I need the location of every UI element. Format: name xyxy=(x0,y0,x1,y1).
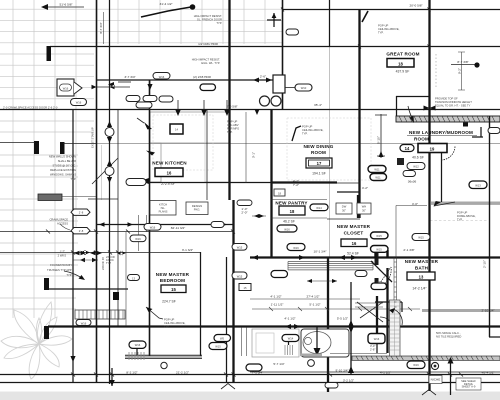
svg-text:224.7 SF: 224.7 SF xyxy=(162,300,176,304)
svg-text:30": 30" xyxy=(342,209,346,213)
vertical dim x461 great room xyxy=(458,52,465,90)
arrow at gray band bath top xyxy=(434,201,442,207)
svg-text:2'-10": 2'-10" xyxy=(483,260,487,268)
dim line top-left with arrow xyxy=(46,6,84,8)
svg-text:9'-2": 9'-2" xyxy=(458,68,462,74)
svg-text:27'-4 1/2": 27'-4 1/2" xyxy=(306,295,319,299)
svg-text:SHEET A-9: SHEET A-9 xyxy=(462,385,476,389)
wall horizontal y96 great room nib xyxy=(396,96,429,98)
tag W15 bath xyxy=(412,234,430,241)
tag small dining top xyxy=(286,29,299,35)
svg-text:18: 18 xyxy=(398,62,403,67)
svg-text:W16: W16 xyxy=(135,237,141,241)
wall horizontal y337 right xyxy=(489,336,500,338)
wall horizontal y326 (south wall) xyxy=(48,325,500,327)
svg-text:4'-1 1/2": 4'-1 1/2" xyxy=(380,371,391,375)
stair hatch bottom-left hallway xyxy=(75,310,125,319)
vertical dim x103 with rotated text xyxy=(103,12,105,44)
svg-text:W14: W14 xyxy=(316,206,322,210)
tag W16 bottom hall xyxy=(76,320,91,326)
svg-text:21'-2 1/2": 21'-2 1/2" xyxy=(176,371,189,375)
svg-text:CLG ABV: CLG ABV xyxy=(227,123,239,127)
wall horizontal y289 xyxy=(48,288,128,290)
svg-text:(2) 2X8 HDR: (2) 2X8 HDR xyxy=(193,75,211,79)
gray band right middle (shower curb) xyxy=(422,309,500,312)
dining corner pilaster xyxy=(273,75,285,93)
svg-text:W15: W15 xyxy=(237,275,243,279)
svg-text:TYP.: TYP. xyxy=(227,130,233,134)
svg-text:50% SPACE CALC.,: 50% SPACE CALC., xyxy=(436,331,461,335)
bath inner line xyxy=(395,206,397,258)
pop-up dashed rect kitchen xyxy=(153,115,213,170)
svg-text:ISL.: ISL. xyxy=(161,206,166,210)
wall horizontal y109 (full) xyxy=(0,109,500,111)
kitchen dim down-arrows xyxy=(178,100,227,114)
tag W16 pantry b xyxy=(287,244,305,251)
hallway gray line xyxy=(101,145,103,200)
svg-text:3'-7 3/4": 3'-7 3/4" xyxy=(124,75,135,79)
svg-text:CLOSET: CLOSET xyxy=(344,231,364,236)
svg-text:TYP.: TYP. xyxy=(164,325,170,329)
svg-text:20'-0 5/8": 20'-0 5/8" xyxy=(409,4,422,8)
svg-text:35'-4": 35'-4" xyxy=(314,103,322,107)
laundry leader arrow xyxy=(408,106,413,120)
bedroom nook verticals xyxy=(139,215,147,251)
bathtub xyxy=(301,329,349,357)
ticks top y9 xyxy=(281,8,431,12)
dim line great room xyxy=(451,64,476,66)
window tag W16 box with pointer (top-left) xyxy=(57,79,74,96)
svg-text:ROOM: ROOM xyxy=(311,150,326,155)
wall vertical x375 bath left segments xyxy=(375,252,379,265)
wall vertical x233 (lower) xyxy=(232,200,234,383)
svg-text:W14: W14 xyxy=(288,337,294,341)
shower right wall xyxy=(386,268,388,353)
svg-text:7'-1 3/4": 7'-1 3/4" xyxy=(252,371,263,375)
svg-text:TYP.: TYP. xyxy=(216,21,222,25)
svg-text:GL. FRENCH DOOR: GL. FRENCH DOOR xyxy=(197,18,222,22)
svg-text:2'-10 1/4": 2'-10 1/4" xyxy=(481,309,494,313)
svg-text:POP-UP: POP-UP xyxy=(457,211,468,215)
svg-text:3'-1": 3'-1" xyxy=(252,152,256,158)
kitchen leader arrows xyxy=(144,122,152,129)
dark label box hallway xyxy=(38,194,62,201)
crawl access leaders xyxy=(60,224,70,230)
tick arrows great room wall x429 xyxy=(424,106,436,111)
svg-text:PER MFG: PER MFG xyxy=(227,127,239,131)
leader hook xyxy=(64,271,83,279)
svg-text:W16: W16 xyxy=(413,363,419,367)
svg-text:2'-0 CRAWLSPACE ACCESS DOOR: 2'-0 CRAWLSPACE ACCESS DOOR 2'-6 2'-0 xyxy=(3,106,58,110)
tag W10 dining xyxy=(295,84,312,91)
arrow up right bottom xyxy=(450,362,452,395)
survey grid horizontal lines (top band) xyxy=(0,9,282,43)
svg-text:36x36: 36x36 xyxy=(408,180,417,184)
dim line y309 xyxy=(252,308,420,310)
pop-up dashed rect dining xyxy=(287,118,371,180)
svg-text:HIGH IMPACT RESIST.: HIGH IMPACT RESIST. xyxy=(192,58,221,62)
hall short line xyxy=(88,198,118,200)
wall vertical x109 xyxy=(109,0,111,384)
ticks y46 xyxy=(358,45,431,49)
svg-text:POP-UP: POP-UP xyxy=(302,125,313,129)
dim line y372 xyxy=(250,371,500,373)
tag W14 pantry top xyxy=(310,204,328,211)
bedroom pop-up leader xyxy=(146,307,163,319)
svg-text:EXIST STAIR UP: EXIST STAIR UP xyxy=(91,127,95,148)
tag W16 pantry south xyxy=(271,271,288,278)
hall thin vertical x246 xyxy=(245,112,247,183)
svg-text:10'-1 3/4": 10'-1 3/4" xyxy=(313,250,326,254)
svg-text:NICHE: NICHE xyxy=(431,378,441,382)
svg-text:W15: W15 xyxy=(215,345,221,349)
dim line y297 xyxy=(250,298,360,300)
svg-text:CEILING ABOVE,: CEILING ABOVE, xyxy=(302,128,324,132)
wall horizontal y9 (top right) xyxy=(282,9,500,11)
svg-text:19: 19 xyxy=(430,147,435,152)
floor drain circles xyxy=(308,360,315,367)
hall columns xyxy=(105,128,114,137)
dim arrows between walls x96-110 xyxy=(97,86,131,88)
svg-text:9'-10 3/4": 9'-10 3/4" xyxy=(335,369,348,373)
svg-text:WH: WH xyxy=(362,205,367,209)
tag cluster hall top xyxy=(126,96,140,102)
wall vertical x207 (kitchen/pantry) xyxy=(206,110,208,200)
svg-text:31'-4 1/2": 31'-4 1/2" xyxy=(159,2,172,6)
tag 4S hall xyxy=(237,200,252,206)
svg-text:2'-0 5/8": 2'-0 5/8" xyxy=(226,105,237,109)
tag 13 bedroom xyxy=(128,275,140,281)
wall vertical x328 (bath left lower) xyxy=(327,257,329,392)
wall vertical x429 (main right wall) xyxy=(428,0,430,391)
double circle symbol dining top xyxy=(260,96,270,106)
gray wall band above master bath xyxy=(431,202,500,205)
ticks y309 xyxy=(269,307,412,311)
closet top thin xyxy=(327,218,360,220)
svg-text:DOME ABOVE,: DOME ABOVE, xyxy=(457,214,476,218)
svg-text:2'-8: 2'-8 xyxy=(79,229,84,233)
bath door stubs xyxy=(376,250,388,258)
svg-text:KITCH: KITCH xyxy=(159,203,167,207)
ticks on y326 wall xyxy=(285,324,300,329)
bath vanity counter xyxy=(252,329,299,357)
vertical dim line x351 xyxy=(350,282,352,374)
svg-text:DESIGN: DESIGN xyxy=(192,204,202,208)
shower entry diagonals xyxy=(357,302,383,322)
svg-text:POP-UP: POP-UP xyxy=(164,318,175,322)
kitchen island black box xyxy=(170,124,183,134)
tag W14 vanity xyxy=(282,335,299,342)
small bar bedroom left xyxy=(113,292,119,300)
annotation boxes xyxy=(150,201,176,216)
svg-text:1/2 CMU HDR: 1/2 CMU HDR xyxy=(198,42,219,46)
laundry vert dim x381 xyxy=(375,114,387,158)
svg-text:5'-10": 5'-10" xyxy=(377,136,381,144)
chase verticals right of bedroom xyxy=(242,327,247,356)
svg-text:2'-8: 2'-8 xyxy=(79,211,84,215)
svg-text:CRAWLSPACE: CRAWLSPACE xyxy=(49,218,68,222)
pantry inner lines xyxy=(271,200,327,219)
wall vertical x149 (bedroom/kitchen left) xyxy=(149,80,151,356)
svg-text:W15: W15 xyxy=(376,280,382,284)
shower tile band xyxy=(390,300,401,356)
svg-text:FOUNDATION BY: FOUNDATION BY xyxy=(50,263,72,267)
thin vertical x118 xyxy=(117,109,119,326)
shower wall double line upper xyxy=(394,257,397,307)
bottom gray strip xyxy=(0,392,500,400)
svg-text:16: 16 xyxy=(167,171,172,176)
bedroom south wall edges xyxy=(125,355,202,358)
palm plant outline (landscaping) xyxy=(1,302,72,379)
section cross top dining xyxy=(267,13,281,27)
svg-text:TRANSOM WINDOW HEIGHT: TRANSOM WINDOW HEIGHT xyxy=(435,100,472,104)
svg-text:TYP.: TYP. xyxy=(66,273,72,277)
wall vertical x489 xyxy=(489,116,491,337)
svg-text:30": 30" xyxy=(362,209,366,213)
tag W16 kitchen left xyxy=(126,179,146,186)
svg-text:NEW KITCHEN: NEW KITCHEN xyxy=(152,161,187,166)
svg-text:W16: W16 xyxy=(374,337,380,341)
pill W16 shower xyxy=(368,334,385,344)
wall horizontal y224 xyxy=(96,224,233,226)
svg-text:40.6 SF: 40.6 SF xyxy=(412,156,424,160)
svg-text:13: 13 xyxy=(132,277,135,281)
svg-text:BEDROOM: BEDROOM xyxy=(160,278,185,283)
wall vertical x96 (left exterior) xyxy=(96,0,98,383)
svg-text:4'-1 1/2": 4'-1 1/2" xyxy=(284,317,295,321)
svg-text:HIGH IMPACT RESIST.: HIGH IMPACT RESIST. xyxy=(194,14,223,18)
thin vertical x126 xyxy=(125,232,127,326)
dim line y252 xyxy=(0,252,200,254)
svg-text:W15: W15 xyxy=(376,234,382,238)
wall vertical x229 (kitchen right, upper) xyxy=(228,0,230,200)
svg-text:ACCESS: ACCESS xyxy=(57,222,68,226)
svg-text:POP-UP: POP-UP xyxy=(378,24,389,28)
wall vertical x200 (bedroom right) xyxy=(200,252,202,356)
tag W16 y224 xyxy=(144,224,161,231)
svg-text:8'-2 1/2": 8'-2 1/2" xyxy=(126,371,137,375)
svg-text:W16: W16 xyxy=(159,75,165,79)
tag right edge laundry xyxy=(488,128,500,134)
svg-text:STUDS @ 16" O.C.: STUDS @ 16" O.C. xyxy=(52,164,76,168)
wall vertical x73 xyxy=(72,109,74,383)
window sill hatch below W14 oval (vanity) xyxy=(285,345,293,355)
svg-text:CEILING ABOVE,: CEILING ABOVE, xyxy=(378,27,400,31)
laundry hatched wall band xyxy=(396,116,500,122)
svg-text:5'-7 1/4": 5'-7 1/4" xyxy=(273,362,284,366)
svg-text:SHALL BE 2X6: SHALL BE 2X6 xyxy=(58,159,77,163)
leader to french door note xyxy=(141,7,191,17)
svg-text:8'-7 3/4": 8'-7 3/4" xyxy=(99,22,103,33)
svg-text:W16: W16 xyxy=(81,322,87,326)
dim line y231 xyxy=(0,231,233,233)
cluster ticks y252 x73..118 xyxy=(71,251,120,255)
wall stub bars xyxy=(47,46,52,61)
wall vertical x359 (dining right / laundry left) xyxy=(358,10,360,218)
svg-text:+6'-4 1/2": +6'-4 1/2" xyxy=(481,371,494,375)
tag small closet bottom xyxy=(355,271,367,277)
svg-text:51'-6 5/8": 51'-6 5/8" xyxy=(59,3,72,7)
wall vertical x396 great-room nib xyxy=(396,96,398,116)
hallway ladder band (horizontal hatch) below master wall xyxy=(288,262,373,270)
svg-text:18: 18 xyxy=(290,209,295,214)
tag W16 pantry a xyxy=(277,225,297,232)
laundry appliances small marks xyxy=(397,158,404,165)
svg-text:46.2 SF: 46.2 SF xyxy=(283,220,295,224)
svg-text:NEW MASTER: NEW MASTER xyxy=(337,224,371,229)
wall vertical x226 (bedroom right) xyxy=(226,257,228,383)
svg-text:W16: W16 xyxy=(63,87,69,91)
svg-text:DW: DW xyxy=(342,205,347,209)
wall horizontal y257 (master south main) xyxy=(250,256,500,258)
svg-text:BATH: BATH xyxy=(415,266,429,271)
hall arrows y216 xyxy=(252,215,266,217)
tag small crawl top xyxy=(71,99,87,106)
svg-text:TYP.: TYP. xyxy=(378,31,384,35)
svg-text:W16: W16 xyxy=(293,246,299,250)
svg-text:NEW DINING: NEW DINING xyxy=(303,144,333,149)
svg-text:194.1 SF: 194.1 SF xyxy=(312,172,326,176)
svg-text:15: 15 xyxy=(244,286,247,290)
svg-text:W15: W15 xyxy=(376,248,382,252)
svg-text:7'-2": 7'-2" xyxy=(293,183,299,187)
sill line below tub xyxy=(330,353,387,355)
svg-text:3'-2 1/2": 3'-2 1/2" xyxy=(343,379,354,383)
diagonal mark top right xyxy=(362,11,368,22)
wall horizontal y182 (pantry top) xyxy=(271,181,337,183)
tag W12 laundry xyxy=(407,163,425,170)
svg-text:REPLACE EXISTING: REPLACE EXISTING xyxy=(50,168,76,172)
svg-text:NEW MASTER: NEW MASTER xyxy=(405,259,439,264)
tags W5/W15 near bedroom right xyxy=(214,335,231,342)
tag bottom center xyxy=(325,383,338,389)
room number boxes xyxy=(387,59,414,68)
pill W15 lower bath xyxy=(371,283,387,290)
survey V marks bottom xyxy=(221,384,436,396)
svg-text:NEW PANTRY: NEW PANTRY xyxy=(275,201,307,206)
arrow down bottom-left xyxy=(111,368,113,386)
svg-text:13: 13 xyxy=(419,275,424,280)
window tag W16 kitchen top xyxy=(153,73,170,80)
bath door diagonal xyxy=(371,261,392,282)
shower wall xyxy=(376,296,378,340)
column dim arrows on x109 xyxy=(107,121,112,183)
svg-text:TYP.: TYP. xyxy=(70,177,76,181)
svg-text:1'-7": 1'-7" xyxy=(60,250,65,254)
svg-text:14: 14 xyxy=(175,128,178,132)
wall vertical x271 (dining left) xyxy=(270,110,272,258)
svg-text:8'-7 3/8": 8'-7 3/8" xyxy=(457,60,468,64)
gray structural line mid (ceiling break) xyxy=(96,143,500,145)
laundry door arc xyxy=(441,146,455,160)
svg-text:2'-0": 2'-0" xyxy=(241,211,247,215)
svg-text:2 WKS: 2 WKS xyxy=(58,254,67,258)
door swing hallway xyxy=(92,158,118,184)
svg-text:W16: W16 xyxy=(135,343,141,347)
svg-text:W16: W16 xyxy=(76,101,82,105)
wall vertical x358 closet top xyxy=(357,195,359,218)
svg-text:3'-1 3/4": 3'-1 3/4" xyxy=(182,248,193,252)
gray interior line dining/closet xyxy=(329,47,331,257)
dim line y281 xyxy=(307,280,337,282)
wall horizontal y46 (top main) xyxy=(50,46,500,48)
laundry L bracket xyxy=(472,127,483,137)
ticks on y257 wall xyxy=(252,255,357,260)
niche box xyxy=(429,376,442,384)
stacked tags W15 closet right xyxy=(371,232,389,239)
wall vertical x329 upper xyxy=(329,0,331,47)
shower door arc xyxy=(393,309,402,325)
svg-text:2'-6": 2'-6" xyxy=(260,75,266,79)
kitchen counters (light) xyxy=(150,112,229,143)
tag small 4S xyxy=(211,222,224,228)
svg-text:14: 14 xyxy=(405,146,410,151)
svg-text:TRUSSES TYP APP.: TRUSSES TYP APP. xyxy=(47,268,72,272)
svg-text:EGG. WL. TYP.: EGG. WL. TYP. xyxy=(201,61,220,65)
svg-text:2X6 DF #2: 2X6 DF #2 xyxy=(101,257,105,270)
svg-text:TYP.: TYP. xyxy=(457,218,463,222)
site line y374 xyxy=(0,374,500,376)
svg-text:5'-5 1/2": 5'-5 1/2" xyxy=(337,317,348,321)
arrows row y253 xyxy=(74,251,126,256)
svg-text:WINDOWS, SHIM AS: WINDOWS, SHIM AS xyxy=(50,173,76,177)
tag dark kitchen top xyxy=(200,84,216,91)
svg-text:TYP.: TYP. xyxy=(302,132,308,136)
svg-text:GREAT ROOM: GREAT ROOM xyxy=(386,52,419,57)
svg-text:437.9 SF: 437.9 SF xyxy=(396,70,410,74)
tag W13 xyxy=(469,181,487,189)
arrow below y109 at x257 xyxy=(254,109,259,115)
svg-text:14'-2 1/4": 14'-2 1/4" xyxy=(412,287,427,291)
tag W16 bath bottom xyxy=(407,361,425,369)
svg-text:16: 16 xyxy=(352,241,357,246)
survey grid horizontal lines (left strip) xyxy=(0,54,94,309)
svg-text:3'-0": 3'-0" xyxy=(370,344,375,348)
dim ticks y231 xyxy=(46,230,235,234)
tag W16 bedroom window xyxy=(129,341,146,348)
arrows on y224 xyxy=(99,222,227,227)
site line y382 xyxy=(0,382,500,384)
pointed tags crawl left xyxy=(71,209,90,215)
svg-text:POP-UP: POP-UP xyxy=(227,120,238,124)
bath bottom hatched band xyxy=(352,356,500,360)
dim line y205 bath top xyxy=(396,205,427,207)
svg-text:2'-1 3/8": 2'-1 3/8" xyxy=(403,248,414,252)
svg-text:W16: W16 xyxy=(150,226,156,230)
svg-text:4'-0": 4'-0" xyxy=(412,202,418,206)
window sill hatch bedroom left xyxy=(129,352,144,360)
svg-text:4'-2": 4'-2" xyxy=(362,186,368,190)
svg-text:5'-1 1/2": 5'-1 1/2" xyxy=(309,303,320,307)
left wall return line xyxy=(0,143,96,144)
svg-text:17: 17 xyxy=(317,161,322,166)
door swing bath left xyxy=(378,267,391,287)
svg-text:272.9 SF: 272.9 SF xyxy=(161,182,175,186)
survey grid vertical lines xyxy=(13,0,265,318)
svg-text:NEW WALLS SHOWN: NEW WALLS SHOWN xyxy=(49,155,76,159)
gray sill below tub xyxy=(300,354,322,357)
svg-text:CEILING ABOVE,: CEILING ABOVE, xyxy=(164,321,186,325)
svg-text:NEW LAUNDRY/MUDROOM: NEW LAUNDRY/MUDROOM xyxy=(409,130,473,135)
svg-text:52.4 SF: 52.4 SF xyxy=(347,252,359,256)
svg-text:W12: W12 xyxy=(413,165,419,169)
svg-text:4'-1 1/2": 4'-1 1/2" xyxy=(270,295,281,299)
svg-text:PLANS: PLANS xyxy=(159,210,168,214)
wall horizontal y80 xyxy=(96,79,285,81)
svg-text:W5: W5 xyxy=(220,337,225,341)
stacked tags W11 laundry left xyxy=(368,166,386,173)
dim ticks y374 xyxy=(71,373,463,377)
